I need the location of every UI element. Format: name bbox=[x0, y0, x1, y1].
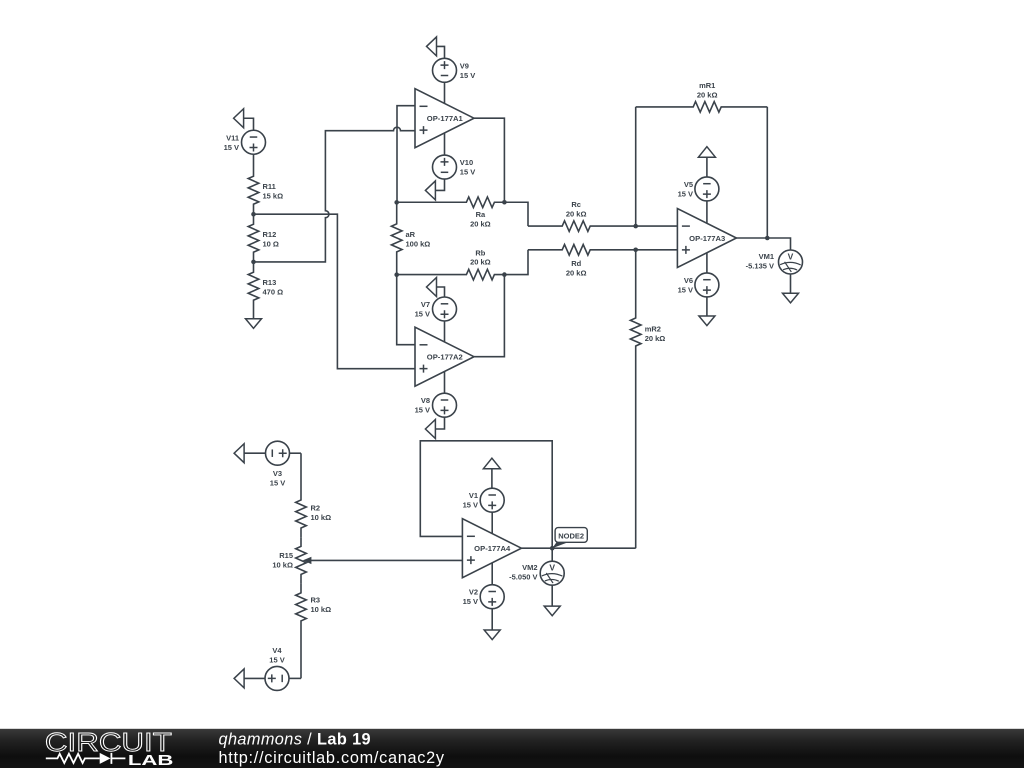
wire bbox=[790, 274, 792, 293]
svg-text:V6: V6 bbox=[684, 276, 693, 285]
power flag arrow above V5 bbox=[698, 147, 715, 158]
resistor Rd bbox=[528, 245, 636, 278]
node label NODE2 bbox=[552, 528, 587, 549]
wire bbox=[244, 118, 254, 130]
svg-text:VM2: VM2 bbox=[522, 563, 537, 572]
voltage source V3 bbox=[266, 441, 290, 487]
svg-text:20 kΩ: 20 kΩ bbox=[566, 209, 587, 218]
svg-text:15 V: 15 V bbox=[463, 501, 478, 510]
wire A1 inverting input bbox=[397, 106, 415, 203]
junction node Rb right bbox=[502, 272, 507, 277]
wire bbox=[551, 585, 553, 606]
op-amp U3 OP-177A3 bbox=[677, 209, 736, 268]
svg-text:V1: V1 bbox=[469, 491, 478, 500]
svg-text:http://circuitlab.com/canac2y: http://circuitlab.com/canac2y bbox=[219, 749, 445, 767]
potentiometer R15 bbox=[272, 537, 311, 583]
svg-text:20 kΩ: 20 kΩ bbox=[566, 268, 587, 277]
wire A1 output bbox=[474, 118, 504, 202]
junction node A3 output bbox=[765, 236, 770, 241]
voltage source V7 bbox=[415, 297, 457, 321]
svg-text:V10: V10 bbox=[460, 158, 473, 167]
svg-text:VM1: VM1 bbox=[759, 252, 774, 261]
junction node NODE2 bbox=[550, 546, 555, 551]
svg-text:mR1: mR1 bbox=[699, 81, 715, 90]
svg-text:V3: V3 bbox=[273, 469, 282, 478]
wire A2 output bbox=[474, 275, 504, 357]
wire bbox=[435, 417, 444, 429]
svg-text:20 kΩ: 20 kΩ bbox=[470, 258, 491, 267]
resistor Rb bbox=[397, 249, 505, 280]
voltage source V2 bbox=[463, 585, 505, 609]
resistor R13 bbox=[248, 262, 283, 319]
svg-text:V8: V8 bbox=[421, 396, 430, 405]
wire node B to A2 non-inverting bbox=[254, 214, 416, 369]
wire bbox=[444, 372, 446, 394]
junction node Rc right bbox=[633, 224, 638, 229]
svg-text:15 V: 15 V bbox=[678, 189, 693, 198]
power flag F_V11 bbox=[234, 109, 244, 128]
wire bbox=[437, 287, 445, 297]
ground bbox=[699, 316, 715, 326]
wire bbox=[706, 297, 708, 316]
wire mR1 right leg bbox=[766, 107, 768, 238]
svg-text:qhammons / Lab 19: qhammons / Lab 19 bbox=[219, 731, 372, 749]
wire bbox=[551, 548, 553, 561]
svg-text:OP-177A3: OP-177A3 bbox=[689, 234, 725, 243]
ground bbox=[484, 630, 500, 640]
svg-text:Rd: Rd bbox=[571, 259, 581, 268]
wire Rc to A3 inverting bbox=[636, 225, 678, 227]
voltage source V5 bbox=[678, 177, 719, 201]
svg-text:20 kΩ: 20 kΩ bbox=[470, 220, 491, 229]
svg-text:10 kΩ: 10 kΩ bbox=[311, 605, 332, 614]
svg-text:Ra: Ra bbox=[476, 210, 486, 219]
resistor R11 bbox=[248, 154, 283, 214]
wire A3 output bbox=[736, 238, 790, 250]
voltage source V8 bbox=[415, 393, 457, 417]
ground bbox=[783, 293, 799, 303]
resistor Rc bbox=[528, 200, 636, 232]
power flag arrow above V1 bbox=[483, 458, 500, 469]
svg-text:15 V: 15 V bbox=[460, 71, 475, 80]
resistor aR bbox=[391, 202, 430, 274]
junction node aR bottom bbox=[394, 272, 399, 277]
power flag F_V8 bbox=[425, 420, 435, 439]
voltage source V9 bbox=[433, 58, 476, 82]
voltage source V1 bbox=[463, 488, 505, 512]
svg-text:470 Ω: 470 Ω bbox=[263, 288, 284, 297]
wire bbox=[491, 469, 493, 489]
svg-text:Rb: Rb bbox=[475, 249, 485, 258]
junction node R11-R12 bbox=[251, 212, 256, 217]
logo resistor glyph bbox=[46, 754, 100, 763]
svg-text:15 V: 15 V bbox=[269, 656, 284, 665]
op-amp U1 OP-177A1 bbox=[415, 89, 474, 148]
wire bbox=[435, 179, 444, 190]
svg-text:15 V: 15 V bbox=[415, 406, 430, 415]
svg-text:V4: V4 bbox=[272, 646, 282, 655]
svg-text:15 V: 15 V bbox=[678, 285, 693, 294]
wire mR1 left leg bbox=[635, 107, 637, 226]
wire bbox=[491, 609, 493, 630]
svg-text:R3: R3 bbox=[311, 596, 321, 605]
svg-text:10 kΩ: 10 kΩ bbox=[311, 513, 332, 522]
wire bbox=[290, 452, 302, 454]
ground bbox=[544, 606, 560, 616]
wire Rd to A3 non-inverting bbox=[636, 249, 678, 251]
power flag F_V9 bbox=[427, 37, 437, 56]
wire bbox=[444, 82, 446, 103]
svg-text:15 V: 15 V bbox=[224, 143, 239, 152]
svg-text:NODE2: NODE2 bbox=[558, 531, 584, 540]
svg-text:V7: V7 bbox=[421, 300, 430, 309]
footer bar bbox=[0, 729, 1024, 768]
svg-text:V2: V2 bbox=[469, 588, 478, 597]
svg-text:V: V bbox=[788, 251, 794, 261]
wire A4 feedback loop bbox=[420, 441, 552, 548]
svg-text:aR: aR bbox=[406, 230, 416, 239]
svg-text:V9: V9 bbox=[460, 61, 469, 70]
junction node Ra right bbox=[502, 200, 507, 205]
junction node aR top bbox=[394, 200, 399, 205]
wire A1 non-inverting input (with hops) bbox=[254, 127, 416, 262]
wire aR to A2 inverting bbox=[397, 275, 415, 345]
svg-text:15 V: 15 V bbox=[415, 310, 430, 319]
svg-text:V: V bbox=[549, 563, 555, 573]
wire A4 output NODE2 net bbox=[521, 547, 635, 549]
voltage source V6 bbox=[678, 273, 719, 297]
voltmeter VM2 bbox=[509, 561, 564, 585]
svg-text:15 V: 15 V bbox=[270, 479, 285, 488]
svg-text:15 V: 15 V bbox=[463, 597, 478, 606]
svg-text:20 kΩ: 20 kΩ bbox=[697, 90, 718, 99]
svg-text:100 kΩ: 100 kΩ bbox=[406, 239, 431, 248]
svg-text:OP-177A4: OP-177A4 bbox=[474, 544, 511, 553]
svg-text:-5.135 V: -5.135 V bbox=[746, 262, 774, 271]
svg-text:V11: V11 bbox=[226, 133, 239, 142]
svg-text:R15: R15 bbox=[279, 551, 293, 560]
resistor mR2 bbox=[630, 250, 665, 548]
junction node R12-R13 bbox=[251, 260, 256, 265]
power flag F_V4 bbox=[234, 669, 244, 688]
svg-text:15 kΩ: 15 kΩ bbox=[263, 192, 284, 201]
svg-text:R13: R13 bbox=[263, 278, 277, 287]
wire bbox=[491, 512, 493, 533]
svg-text:10 kΩ: 10 kΩ bbox=[272, 560, 293, 569]
resistor R12 bbox=[248, 214, 279, 262]
svg-text:OP-177A2: OP-177A2 bbox=[427, 353, 463, 362]
resistor mR1 bbox=[636, 81, 768, 112]
ground bbox=[246, 319, 262, 329]
wire Rb-Rd jog bbox=[504, 250, 528, 275]
svg-text:-5.050 V: -5.050 V bbox=[509, 573, 537, 582]
wire bbox=[244, 677, 265, 679]
svg-text:10 Ω: 10 Ω bbox=[263, 240, 279, 249]
wire Ra-Rc jog bbox=[504, 202, 528, 226]
voltmeter VM1 bbox=[746, 250, 803, 274]
svg-text:V5: V5 bbox=[684, 180, 693, 189]
voltage source V11 bbox=[224, 130, 266, 154]
voltage source V10 bbox=[433, 155, 476, 179]
svg-text:R2: R2 bbox=[311, 504, 321, 513]
resistor Ra bbox=[397, 197, 505, 229]
svg-text:Rc: Rc bbox=[571, 200, 581, 209]
wire bbox=[244, 452, 265, 454]
power flag F_V7 bbox=[427, 278, 437, 297]
wire bbox=[706, 253, 708, 273]
voltage source V4 bbox=[265, 646, 289, 690]
wire bbox=[444, 321, 446, 342]
junction node Rd right bbox=[633, 248, 638, 253]
svg-text:R11: R11 bbox=[263, 182, 276, 191]
svg-text:mR2: mR2 bbox=[645, 325, 661, 334]
svg-text:20 kΩ: 20 kΩ bbox=[645, 334, 666, 343]
power flag F_V10 bbox=[425, 181, 435, 200]
wire bbox=[491, 563, 493, 585]
wire bbox=[289, 677, 301, 679]
wire R15 wiper to A4 bbox=[311, 559, 462, 561]
wire bbox=[706, 157, 708, 177]
svg-text:LAB: LAB bbox=[128, 753, 173, 768]
power flag F_V3 bbox=[234, 444, 244, 463]
resistor R2 bbox=[296, 453, 331, 537]
wire bbox=[437, 46, 445, 58]
svg-text:15 V: 15 V bbox=[460, 168, 475, 177]
wire bbox=[444, 133, 446, 155]
op-amp U2 OP-177A2 bbox=[415, 327, 474, 386]
resistor R3 bbox=[296, 584, 331, 679]
logo diode glyph bbox=[100, 753, 111, 764]
svg-text:OP-177A1: OP-177A1 bbox=[427, 114, 463, 123]
op-amp U4 OP-177A4 bbox=[462, 519, 521, 578]
svg-text:R12: R12 bbox=[263, 230, 277, 239]
wire bbox=[706, 201, 708, 223]
